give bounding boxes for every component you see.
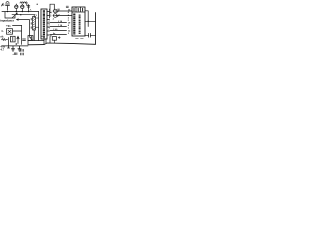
pin number column U2	[68, 9, 71, 35]
svg-text:7: 7	[48, 27, 50, 30]
wire from impedance to down	[17, 20, 30, 36]
wire C5 to U2	[56, 10, 72, 12]
wire mid 4	[50, 34, 67, 36]
label c value2	[21, 53, 24, 55]
U2 internal divider boxes	[72, 7, 85, 12]
wire mid 1	[50, 22, 67, 24]
flat box on bus	[28, 40, 44, 44]
op-amp U1 package	[41, 9, 47, 39]
transformer T1 hatched	[33, 17, 36, 31]
ground G2	[18, 46, 21, 51]
corner wire right of X2	[42, 36, 45, 40]
wire T1 down	[33, 30, 35, 41]
op-amp U2 package	[72, 7, 85, 36]
wire mid down	[49, 37, 51, 43]
antenna input scribble	[2, 3, 5, 6]
svg-text:2: 2	[48, 19, 50, 22]
wire mid 3	[50, 30, 67, 32]
transistor Q1 arrow	[17, 36, 19, 43]
wire +9v feed	[13, 24, 22, 26]
scribble above U2	[66, 6, 68, 7]
wire vertical into U1	[38, 12, 40, 41]
wire C6 to U2	[56, 15, 72, 17]
wire R1 down	[8, 38, 10, 46]
svg-text:+9v: +9v	[6, 24, 11, 28]
trimmer capacitor C3	[21, 5, 24, 8]
U1 internal text	[43, 10, 45, 37]
marks below U2	[76, 38, 84, 40]
capacitor C1	[6, 2, 10, 10]
label c value	[21, 49, 24, 51]
inductor L1	[20, 2, 27, 6]
svg-text:A: A	[30, 8, 32, 11]
wire top bus	[2, 11, 39, 13]
plus mark Q1	[16, 43, 17, 44]
right rail wire	[95, 13, 97, 45]
trimmer capacitor C6	[54, 14, 58, 18]
svg-text:3: 3	[50, 15, 52, 18]
wire U2 right pin to cap	[85, 34, 96, 36]
svg-text:impedance: impedance	[0, 18, 14, 22]
wire trimmer stubs	[16, 9, 28, 12]
svg-text:1: 1	[68, 32, 70, 35]
svg-text:1: 1	[48, 23, 50, 26]
wire from K1	[13, 30, 22, 32]
svg-text:4: 4	[53, 19, 55, 21]
svg-text:L: L	[2, 29, 4, 33]
wire T1 top	[33, 15, 35, 17]
U2 internal text column 1	[73, 14, 75, 35]
crystal X3 box	[52, 37, 56, 41]
T1 stubs	[35, 18, 38, 27]
trimmer slash marks	[58, 10, 60, 17]
svg-text:4.7: 4.7	[0, 48, 4, 52]
trimmer capacitor C5	[54, 9, 58, 13]
crystal bracket top left	[37, 4, 38, 5]
pin number labels U1	[48, 11, 52, 38]
wire U2 pin to rail	[85, 20, 96, 22]
bottom bus wire	[28, 43, 96, 45]
node junction dots	[7, 11, 8, 12]
arrow through loop	[12, 13, 17, 18]
loop antenna wire	[5, 12, 15, 18]
label .01	[13, 53, 17, 55]
capacitor C7 box	[11, 36, 16, 42]
resistor R1	[2, 39, 8, 41]
bottom left bus wire	[2, 45, 28, 47]
U1 pins right	[47, 12, 50, 36]
T1 pin digits	[30, 18, 32, 28]
box K1	[7, 29, 13, 35]
U2 internal text column 2	[79, 15, 81, 35]
trimmer capacitor C4	[27, 5, 30, 9]
capacitor C8	[89, 33, 91, 37]
wire U2 top right pin down	[85, 11, 88, 27]
wire U1 pin bus	[50, 9, 52, 18]
ground G1	[11, 46, 14, 51]
capacitor C9 ticks	[23, 39, 26, 41]
wire second bus	[12, 14, 35, 16]
small box crystal X2	[28, 36, 33, 41]
wire U1 bottom pin 1	[45, 39, 47, 43]
wire vertical to bus	[21, 25, 23, 44]
svg-text:3: 3	[36, 15, 38, 17]
wire mid 2	[50, 26, 67, 28]
trimmer capacitor C2	[15, 5, 18, 8]
crystal bracket top right	[50, 4, 54, 9]
ground stub G0	[8, 46, 10, 48]
plus mark	[58, 37, 60, 39]
